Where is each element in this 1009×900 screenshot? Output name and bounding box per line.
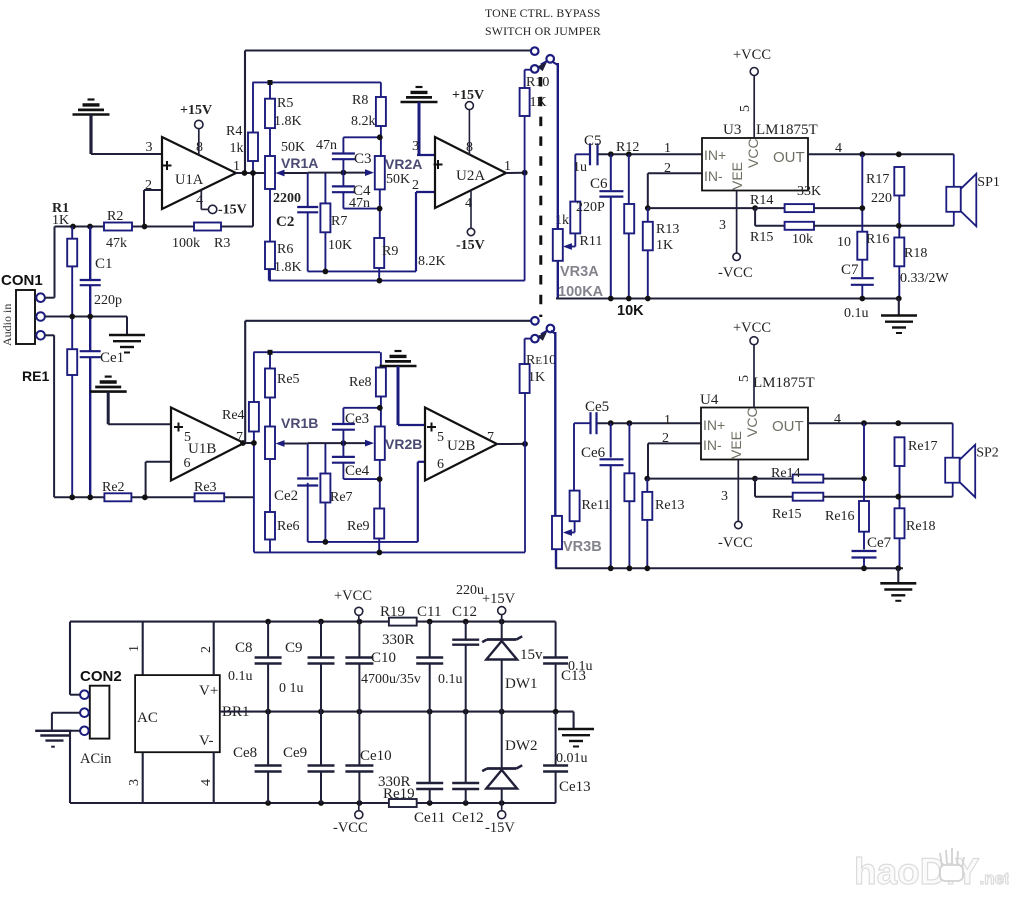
- svg-text:2: 2: [664, 161, 671, 176]
- svg-text:5: 5: [737, 375, 752, 382]
- svg-text:330R: 330R: [382, 632, 415, 648]
- svg-text:1: 1: [233, 159, 240, 174]
- svg-text:4: 4: [835, 141, 842, 156]
- svg-text:100k: 100k: [172, 236, 200, 251]
- svg-text:VEE: VEE: [728, 431, 744, 459]
- svg-text:4: 4: [834, 412, 841, 427]
- svg-text:+15V: +15V: [180, 103, 212, 118]
- svg-text:VR1B: VR1B: [281, 415, 318, 431]
- svg-text:C3: C3: [354, 151, 372, 167]
- svg-text:R11: R11: [580, 234, 603, 249]
- svg-text:R14: R14: [750, 193, 773, 208]
- svg-text:2: 2: [412, 178, 419, 193]
- svg-text:47n: 47n: [316, 138, 337, 153]
- svg-text:+15V: +15V: [482, 591, 516, 607]
- svg-text:C6: C6: [590, 176, 608, 192]
- svg-text:1: 1: [664, 413, 671, 428]
- svg-text:1.8K: 1.8K: [274, 260, 302, 275]
- svg-text:220u: 220u: [456, 583, 484, 598]
- svg-text:+VCC: +VCC: [733, 47, 771, 63]
- svg-text:VCC: VCC: [745, 138, 761, 168]
- svg-text:SWITCH OR JUMPER: SWITCH OR JUMPER: [485, 24, 601, 38]
- svg-text:R18: R18: [904, 246, 927, 261]
- svg-text:Re14: Re14: [771, 466, 801, 481]
- svg-text:R15: R15: [750, 230, 773, 245]
- svg-text:TONE CTRL. BYPASS: TONE CTRL. BYPASS: [485, 6, 600, 20]
- svg-text:1K: 1K: [52, 213, 69, 228]
- svg-text:VR3A: VR3A: [560, 264, 599, 280]
- svg-text:1K: 1K: [530, 95, 547, 110]
- svg-text:Re16: Re16: [825, 509, 855, 524]
- svg-text:0.33/2W: 0.33/2W: [900, 271, 949, 286]
- svg-text:6: 6: [184, 456, 191, 471]
- svg-text:C1: C1: [95, 256, 113, 272]
- svg-text:Re5: Re5: [277, 372, 300, 387]
- svg-text:V+: V+: [199, 683, 218, 699]
- svg-text:3: 3: [412, 139, 419, 154]
- svg-text:Re18: Re18: [906, 519, 936, 534]
- svg-text:33K: 33K: [797, 184, 821, 199]
- svg-text:AC: AC: [137, 710, 158, 726]
- svg-text:Re13: Re13: [655, 498, 685, 513]
- svg-text:10K: 10K: [328, 238, 352, 253]
- svg-text:-VCC: -VCC: [718, 535, 753, 551]
- svg-text:CON1: CON1: [1, 272, 43, 289]
- svg-text:R10: R10: [526, 75, 549, 90]
- svg-text:C13: C13: [561, 668, 586, 684]
- svg-text:DW1: DW1: [505, 676, 538, 692]
- svg-text:+VCC: +VCC: [334, 588, 372, 604]
- svg-text:50K: 50K: [386, 172, 410, 187]
- svg-text:Re9: Re9: [347, 519, 370, 534]
- svg-text:U4: U4: [700, 392, 719, 408]
- svg-text:C7: C7: [841, 262, 859, 278]
- svg-text:0.1u: 0.1u: [228, 669, 253, 684]
- svg-text:1k: 1k: [230, 141, 244, 156]
- svg-text:1K: 1K: [656, 238, 673, 253]
- svg-text:0.1u: 0.1u: [438, 672, 463, 687]
- svg-text:Ce4: Ce4: [345, 463, 370, 479]
- svg-text:6: 6: [437, 457, 444, 472]
- svg-text:Re8: Re8: [349, 375, 372, 390]
- svg-text:-VCC: -VCC: [333, 820, 368, 836]
- svg-text:10: 10: [837, 235, 851, 250]
- svg-text:C12: C12: [452, 604, 477, 620]
- svg-text:R12: R12: [616, 140, 639, 155]
- svg-text:4: 4: [199, 779, 214, 786]
- svg-text:C8: C8: [235, 640, 253, 656]
- svg-text:8.2k: 8.2k: [351, 114, 376, 129]
- svg-text:VR2B: VR2B: [385, 436, 422, 452]
- svg-text:OUT: OUT: [773, 149, 805, 166]
- svg-text:15v: 15v: [520, 647, 543, 663]
- svg-text:Ce10: Ce10: [360, 748, 392, 764]
- svg-text:5: 5: [437, 430, 444, 445]
- svg-text:-VCC: -VCC: [718, 265, 753, 281]
- svg-text:VCC: VCC: [744, 407, 760, 437]
- svg-text:SP2: SP2: [976, 446, 999, 461]
- svg-text:+VCC: +VCC: [733, 320, 771, 336]
- svg-text:Ce6: Ce6: [581, 445, 606, 461]
- svg-text:Re7: Re7: [330, 490, 353, 505]
- svg-text:U3: U3: [723, 122, 741, 138]
- svg-text:IN-: IN-: [704, 168, 723, 184]
- svg-text:R3: R3: [214, 236, 230, 251]
- svg-text:1.8K: 1.8K: [274, 114, 302, 129]
- svg-text:C11: C11: [417, 604, 441, 620]
- svg-text:U2B: U2B: [447, 438, 475, 454]
- svg-text:R2: R2: [107, 209, 123, 224]
- svg-text:VR2A: VR2A: [385, 156, 422, 172]
- svg-text:3: 3: [146, 140, 153, 155]
- svg-text:U2A: U2A: [456, 168, 485, 184]
- svg-text:-15V: -15V: [485, 820, 515, 836]
- svg-text:0.1u: 0.1u: [844, 306, 869, 321]
- svg-text:R17: R17: [866, 172, 889, 187]
- svg-text:10K: 10K: [617, 303, 644, 319]
- svg-text:1: 1: [504, 159, 511, 174]
- svg-text:ACin: ACin: [80, 751, 112, 767]
- svg-text:Ce7: Ce7: [867, 535, 892, 551]
- svg-text:10k: 10k: [792, 232, 813, 247]
- svg-text:VR1A: VR1A: [281, 155, 318, 171]
- svg-text:2: 2: [145, 178, 152, 193]
- svg-text:-15V: -15V: [456, 238, 485, 253]
- svg-text:VR3B: VR3B: [563, 539, 602, 555]
- svg-text:SP1: SP1: [977, 175, 1000, 190]
- svg-text:Re15: Re15: [772, 507, 802, 522]
- svg-text:OUT: OUT: [772, 418, 804, 435]
- svg-text:Re2: Re2: [102, 480, 125, 495]
- svg-text:R4: R4: [226, 124, 242, 139]
- svg-text:3: 3: [719, 218, 726, 233]
- svg-text:7: 7: [487, 430, 494, 445]
- svg-text:47n: 47n: [349, 196, 370, 211]
- svg-text:0.01u: 0.01u: [556, 751, 588, 766]
- svg-text:Re4: Re4: [222, 408, 245, 423]
- svg-text:4700u/35v: 4700u/35v: [361, 672, 421, 687]
- svg-text:2: 2: [662, 431, 669, 446]
- svg-text:R6: R6: [277, 242, 293, 257]
- svg-text:1: 1: [127, 645, 142, 652]
- svg-text:RE10: RE10: [526, 353, 556, 368]
- svg-text:IN+: IN+: [703, 417, 725, 433]
- svg-text:+15V: +15V: [452, 88, 484, 103]
- svg-text:Re3: Re3: [194, 480, 217, 495]
- svg-text:220P: 220P: [576, 200, 605, 215]
- svg-text:1u: 1u: [573, 160, 587, 175]
- svg-text:R13: R13: [656, 222, 679, 237]
- svg-text:C9: C9: [285, 640, 303, 656]
- svg-text:V-: V-: [199, 733, 213, 749]
- svg-text:Re11: Re11: [582, 498, 611, 513]
- svg-text:220: 220: [871, 191, 892, 206]
- svg-text:8.2K: 8.2K: [418, 254, 446, 269]
- svg-text:220p: 220p: [94, 293, 122, 308]
- svg-text:Ce8: Ce8: [233, 745, 257, 761]
- svg-text:IN-: IN-: [703, 437, 722, 453]
- svg-text:DW2: DW2: [505, 738, 538, 754]
- svg-text:Re19: Re19: [383, 786, 415, 802]
- svg-text:Re6: Re6: [277, 519, 300, 534]
- svg-text:5: 5: [738, 105, 753, 112]
- svg-text:C10: C10: [371, 650, 396, 666]
- svg-text:50K: 50K: [281, 140, 305, 155]
- svg-text:C2: C2: [276, 214, 294, 230]
- svg-text:3: 3: [127, 779, 142, 786]
- svg-text:-15V: -15V: [218, 203, 247, 218]
- svg-text:U1A: U1A: [175, 172, 204, 188]
- svg-text:R8: R8: [352, 93, 368, 108]
- svg-text:LM1875T: LM1875T: [753, 375, 815, 391]
- svg-text:U1B: U1B: [188, 441, 216, 457]
- svg-text:RE1: RE1: [22, 368, 49, 384]
- svg-text:2: 2: [199, 646, 214, 653]
- svg-text:Ce3: Ce3: [345, 411, 369, 427]
- svg-text:Ce9: Ce9: [283, 745, 307, 761]
- svg-text:0 1u: 0 1u: [279, 681, 304, 696]
- svg-text:R16: R16: [866, 232, 889, 247]
- svg-text:CON2: CON2: [80, 668, 122, 685]
- svg-text:R7: R7: [331, 214, 347, 229]
- svg-text:R9: R9: [382, 244, 398, 259]
- svg-text:1: 1: [664, 141, 671, 156]
- svg-text:Ce1: Ce1: [100, 350, 124, 366]
- svg-text:1K: 1K: [528, 370, 545, 385]
- svg-text:2200: 2200: [273, 191, 301, 206]
- svg-text:Audio in: Audio in: [0, 304, 14, 346]
- svg-text:C5: C5: [584, 133, 602, 149]
- svg-text:R5: R5: [277, 96, 293, 111]
- svg-text:R19: R19: [380, 604, 405, 620]
- svg-text:Ce13: Ce13: [559, 779, 591, 795]
- svg-text:VEE: VEE: [729, 162, 745, 190]
- svg-text:IN+: IN+: [704, 147, 726, 163]
- svg-text:Re17: Re17: [908, 439, 938, 454]
- svg-text:Ce11: Ce11: [414, 810, 445, 826]
- svg-text:LM1875T: LM1875T: [756, 122, 818, 138]
- svg-text:3: 3: [721, 489, 728, 504]
- svg-text:Ce2: Ce2: [274, 488, 298, 504]
- svg-text:Ce5: Ce5: [585, 399, 609, 415]
- svg-text:47k: 47k: [106, 236, 127, 251]
- svg-text:Ce12: Ce12: [452, 810, 484, 826]
